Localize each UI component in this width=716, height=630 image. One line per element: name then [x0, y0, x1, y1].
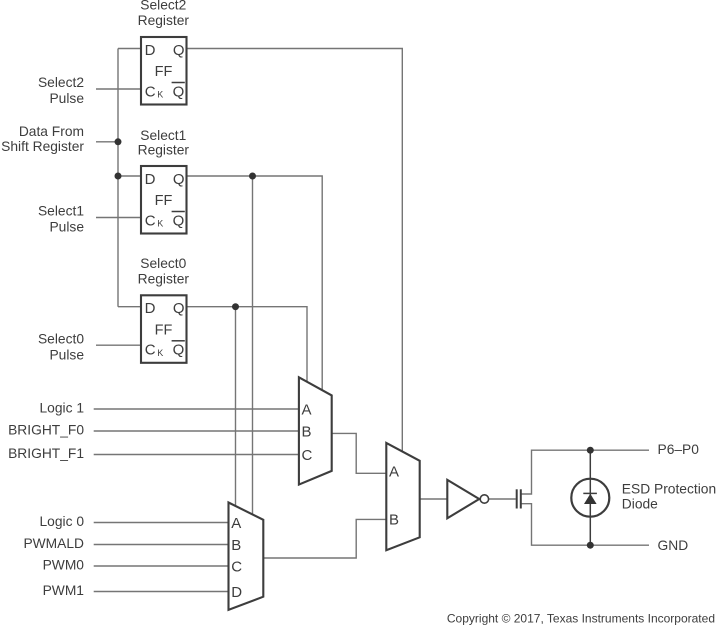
svg-text:Pulse: Pulse	[49, 91, 84, 106]
svg-text:Q: Q	[173, 171, 185, 188]
wire Q1 source to GND rail	[521, 504, 649, 546]
svg-text:P6–P0: P6–P0	[658, 442, 700, 457]
svg-text:FF: FF	[155, 64, 173, 80]
wire BRIGHT_F0 to mux U4 input B	[94, 430, 299, 432]
svg-text:Register: Register	[138, 143, 190, 158]
node FF2 D junction	[115, 173, 122, 180]
svg-text:B: B	[389, 512, 399, 529]
wire data vertical bus	[117, 49, 119, 307]
svg-text:Register: Register	[138, 271, 190, 286]
svg-text:Register: Register	[138, 13, 190, 28]
transistor Q1 (NMOS)	[517, 489, 521, 508]
svg-text:D: D	[145, 171, 156, 188]
svg-text:Diode: Diode	[622, 496, 658, 511]
node FF2 Q branch junction	[249, 173, 256, 180]
wire PWM1 to mux U5 input D	[94, 591, 229, 593]
svg-text:Q: Q	[173, 83, 185, 100]
svg-text:Select0: Select0	[38, 332, 84, 347]
mux U4 (3:1, inputs A B C)	[299, 377, 332, 484]
svg-text:C: C	[145, 212, 156, 229]
svg-text:D: D	[231, 584, 242, 601]
svg-text:Q: Q	[173, 300, 185, 317]
label PWM0	[43, 558, 85, 573]
wire ESD diode vertical	[589, 450, 591, 545]
svg-text:B: B	[231, 537, 241, 554]
wire FF3 D stub	[118, 306, 141, 308]
svg-text:C: C	[302, 447, 313, 464]
svg-text:A: A	[231, 515, 241, 532]
svg-text:FF: FF	[155, 193, 173, 209]
svg-text:PWMALD: PWMALD	[23, 536, 84, 551]
label Select1 Pulse	[38, 204, 84, 235]
label Select0 Register	[138, 256, 190, 286]
wire FF1 D stub	[118, 48, 141, 50]
node FF3 Q branch junction	[232, 303, 239, 310]
svg-text:Q: Q	[173, 342, 185, 359]
label Select2 Pulse	[38, 75, 84, 106]
svg-text:B: B	[302, 424, 312, 441]
svg-text:Logic 1: Logic 1	[40, 401, 85, 416]
wire inverter U7 output to transistor Q1 gate	[489, 498, 516, 500]
wire Select2 Pulse to FF1 CK	[96, 88, 141, 90]
wire FF3 Q branch to mux U5 select	[235, 307, 237, 506]
svg-text:Logic 0: Logic 0	[40, 514, 85, 529]
wire Data From Shift Register label stub	[96, 141, 118, 143]
wire FF2 D stub	[118, 175, 141, 177]
label Logic 0	[40, 514, 85, 529]
svg-text:K: K	[157, 90, 163, 100]
svg-text:C: C	[145, 342, 156, 359]
wire Logic 0 to mux U5 input A	[94, 522, 229, 524]
wire PWM0 to mux U5 input C	[94, 565, 229, 567]
svg-text:C: C	[231, 559, 242, 576]
label BRIGHT_F0	[8, 423, 84, 438]
label PWM1	[43, 583, 84, 598]
wire Select0 Pulse to FF3 CK	[96, 344, 141, 346]
svg-text:Q: Q	[173, 42, 185, 59]
svg-text:BRIGHT_F0: BRIGHT_F0	[8, 423, 84, 438]
svg-text:PWM0: PWM0	[43, 558, 85, 573]
svg-text:Q: Q	[173, 212, 185, 229]
svg-text:Shift Register: Shift Register	[1, 139, 84, 154]
ESD protection diode D1	[571, 479, 609, 517]
svg-text:BRIGHT_F1: BRIGHT_F1	[8, 446, 84, 461]
svg-text:PWM1: PWM1	[43, 583, 84, 598]
label GND	[658, 538, 689, 553]
wire Q1 drain to P6-P0 rail	[521, 450, 649, 494]
svg-text:K: K	[157, 219, 163, 229]
svg-text:Data From: Data From	[19, 124, 84, 139]
mux U6 (2:1, inputs A B)	[386, 443, 419, 550]
wire FF1 Q to mux U6 select	[187, 49, 403, 452]
label copyright	[447, 612, 715, 626]
svg-text:Select2: Select2	[140, 0, 186, 13]
svg-text:D: D	[145, 42, 156, 59]
label Data From Shift Register	[1, 124, 84, 154]
label ESD Protection Diode	[622, 481, 716, 511]
svg-text:C: C	[145, 83, 156, 100]
wire PWMALD to mux U5 input B	[94, 544, 229, 546]
wire mux U4 output to mux U6 input A	[332, 433, 387, 473]
flip-flop U3 Select0 Register	[141, 295, 187, 363]
svg-text:D: D	[145, 300, 156, 317]
svg-text:Select0: Select0	[140, 256, 186, 271]
svg-text:Select2: Select2	[38, 75, 84, 90]
label Select2 Register	[138, 0, 190, 28]
node GND rail junction	[587, 542, 594, 549]
svg-text:FF: FF	[155, 322, 173, 338]
svg-text:Pulse: Pulse	[49, 220, 84, 235]
wire FF3 Q to mux U4 select	[187, 307, 308, 382]
wire FF2 Q to mux U4 select	[187, 176, 323, 390]
node data-label junction	[115, 138, 122, 145]
svg-text:Copyright © 2017, Texas Instru: Copyright © 2017, Texas Instruments Inco…	[447, 612, 715, 626]
label P6-P0	[658, 442, 700, 457]
wire mux U5 output to mux U6 input B	[263, 519, 386, 558]
label Select1 Register	[138, 128, 190, 158]
node P6-P0 rail junction	[587, 447, 594, 454]
svg-text:Select1: Select1	[38, 204, 84, 219]
label PWMALD	[23, 536, 84, 551]
label Select0 Pulse	[38, 332, 84, 363]
wire Select1 Pulse to FF2 CK	[96, 217, 141, 219]
svg-text:GND: GND	[658, 538, 689, 553]
label BRIGHT_F1	[8, 446, 84, 461]
svg-text:Select1: Select1	[140, 128, 186, 143]
svg-text:K: K	[157, 348, 163, 358]
wire FF2 Q branch to mux U5 select	[252, 176, 254, 514]
wire Logic 1 to mux U4 input A	[94, 408, 299, 410]
label Logic 1	[40, 401, 85, 416]
mux U5 (4:1, inputs A B C D)	[229, 503, 264, 610]
wire BRIGHT_F1 to mux U4 input C	[94, 454, 299, 456]
wire mux U6 output to inverter U7	[420, 498, 447, 500]
flip-flop U2 Select1 Register	[141, 166, 187, 234]
svg-text:A: A	[302, 402, 312, 419]
flip-flop U1 Select2 Register	[141, 37, 187, 105]
svg-text:ESD Protection: ESD Protection	[622, 481, 716, 496]
inverter U7	[447, 480, 488, 519]
svg-text:A: A	[389, 464, 399, 481]
svg-text:Pulse: Pulse	[49, 348, 84, 363]
